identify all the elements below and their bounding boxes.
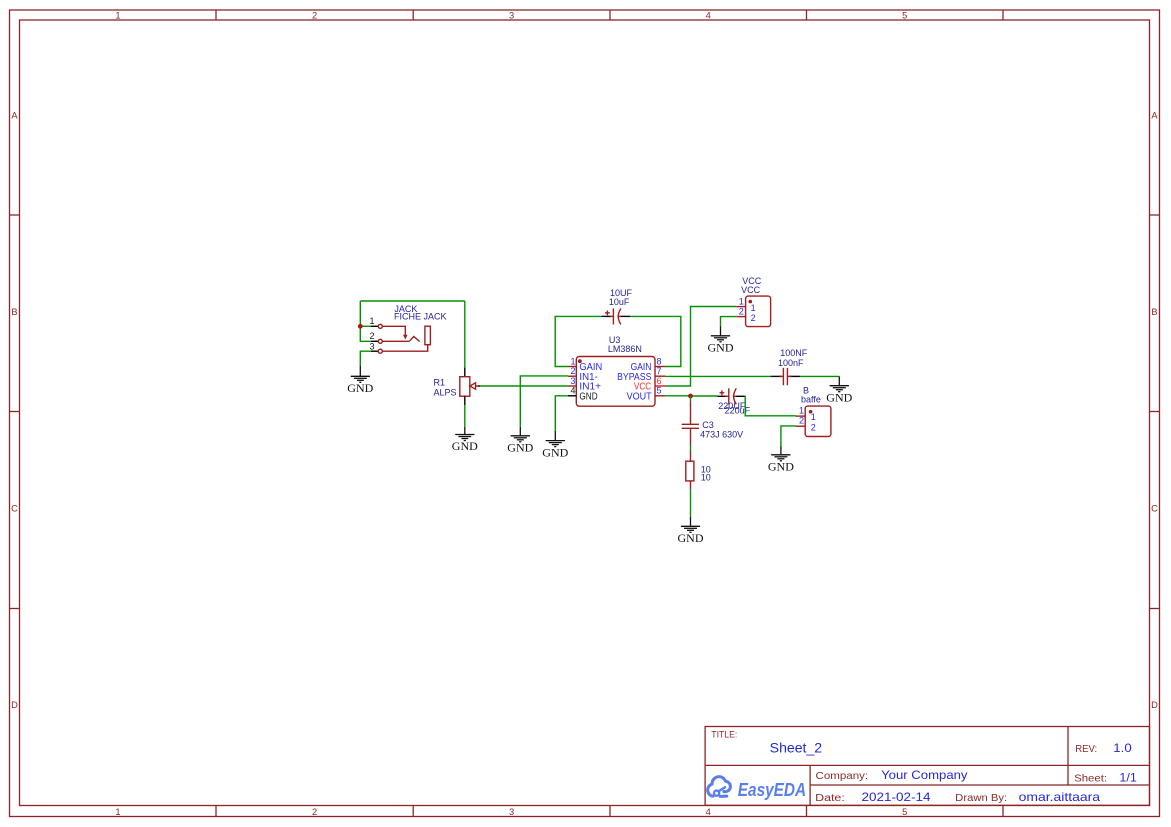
svg-text:GND: GND <box>507 441 533 455</box>
svg-text:1.0: 1.0 <box>1113 741 1132 755</box>
svg-text:1: 1 <box>751 303 756 313</box>
svg-text:ALPS: ALPS <box>434 387 457 397</box>
svg-text:3: 3 <box>509 807 514 817</box>
svg-text:100NF: 100NF <box>780 348 808 358</box>
svg-text:2: 2 <box>369 331 374 341</box>
ground GND output <box>678 517 704 545</box>
op-amp U3 LM386N <box>568 357 666 407</box>
wire junction to jack pin 1 <box>360 325 371 327</box>
svg-text:5: 5 <box>902 807 907 817</box>
svg-text:C: C <box>11 503 18 513</box>
connector JACK FICHE JACK <box>371 324 431 353</box>
svg-text:REV:: REV: <box>1075 744 1097 755</box>
svg-text:D: D <box>1151 700 1158 710</box>
svg-text:Sheet:: Sheet: <box>1074 773 1107 784</box>
svg-text:VOUT: VOUT <box>627 392 652 403</box>
svg-text:GND: GND <box>347 381 373 395</box>
title block <box>705 727 1149 806</box>
svg-text:R1: R1 <box>434 378 446 388</box>
wire VCC net vertical to pin 6 <box>665 307 736 387</box>
ground GND jack <box>347 366 373 395</box>
capacitor 10uF polarized <box>602 308 631 324</box>
wire 10uF right loop to pin 8 <box>630 316 681 366</box>
schematic <box>347 276 852 545</box>
wire jack pin 3 to ground <box>360 351 371 365</box>
svg-text:10uF: 10uF <box>609 297 630 307</box>
wire junction down to jack pin 2 <box>360 326 371 341</box>
ground GND R1 <box>452 427 478 453</box>
svg-text:2: 2 <box>312 807 317 817</box>
wire 10uF left loop <box>555 316 601 366</box>
svg-text:baffe: baffe <box>801 394 821 404</box>
ground GND baffe <box>768 446 794 473</box>
wire top vertical to R1 <box>464 301 466 368</box>
ground GND pin4 <box>542 431 568 459</box>
svg-text:4: 4 <box>570 386 575 396</box>
svg-text:100nF: 100nF <box>778 358 804 368</box>
capacitor 100nF <box>771 368 801 385</box>
resistor 10 <box>686 451 694 490</box>
capacitor 220uF polarized <box>717 388 744 404</box>
svg-text:1: 1 <box>570 356 575 366</box>
svg-text:2: 2 <box>811 422 816 432</box>
svg-text:220uF: 220uF <box>725 406 751 416</box>
svg-text:5: 5 <box>902 11 907 21</box>
svg-text:GND: GND <box>542 445 568 459</box>
wire VCC pin2 to ground <box>721 317 737 327</box>
svg-text:1: 1 <box>739 296 744 306</box>
svg-text:GND: GND <box>452 439 478 453</box>
svg-text:2: 2 <box>799 416 804 426</box>
svg-text:C: C <box>1151 503 1158 513</box>
svg-text:GND: GND <box>678 531 704 545</box>
svg-text:Your Company: Your Company <box>881 768 967 782</box>
potentiometer R1 <box>460 368 480 406</box>
svg-text:GND: GND <box>768 460 794 474</box>
wire B pin2 to ground <box>781 426 796 446</box>
wire pin7 bypass to 100nF <box>665 375 771 377</box>
svg-text:2021-02-14: 2021-02-14 <box>862 790 931 804</box>
svg-text:7: 7 <box>657 366 662 376</box>
svg-text:8: 8 <box>657 356 662 366</box>
svg-text:GND: GND <box>579 392 597 403</box>
connector B baffe <box>796 406 831 436</box>
svg-text:5: 5 <box>657 386 662 396</box>
svg-text:1: 1 <box>115 807 120 817</box>
svg-text:TITLE:: TITLE: <box>711 729 737 739</box>
svg-text:B: B <box>1151 307 1157 317</box>
svg-text:1: 1 <box>115 11 120 21</box>
svg-text:3: 3 <box>570 376 575 386</box>
wire input left vertical to junction <box>359 301 361 326</box>
svg-text:6: 6 <box>657 376 662 386</box>
svg-text:2: 2 <box>312 11 317 21</box>
svg-text:D: D <box>11 700 18 710</box>
svg-text:EasyEDA: EasyEDA <box>738 779 806 800</box>
wire input top horizontal <box>360 300 465 302</box>
svg-text:Date:: Date: <box>815 793 845 804</box>
wire U3 pin2 to ground <box>520 376 568 427</box>
wire U3 pin3 to R1 wiper <box>480 385 568 387</box>
svg-text:A: A <box>1151 110 1158 120</box>
svg-text:LM386N: LM386N <box>608 344 642 354</box>
wire R1 bottom to ground <box>464 405 466 427</box>
connector VCC <box>736 296 770 327</box>
svg-text:VCC: VCC <box>741 285 761 295</box>
ground GND middle <box>507 427 533 455</box>
capacitor C3 <box>682 402 699 446</box>
svg-text:Sheet_2: Sheet_2 <box>770 740 822 755</box>
svg-text:GND: GND <box>826 390 852 404</box>
svg-text:FICHE JACK: FICHE JACK <box>394 311 447 321</box>
svg-text:3: 3 <box>369 341 374 351</box>
svg-text:1: 1 <box>811 412 816 422</box>
svg-text:2: 2 <box>751 313 756 323</box>
wire 220uF to connector B pin1 <box>745 396 796 416</box>
svg-text:4: 4 <box>706 807 711 817</box>
ground GND bypass <box>826 376 852 404</box>
svg-text:2: 2 <box>739 307 744 317</box>
wire 100nF right to ground <box>800 375 839 377</box>
svg-text:3: 3 <box>509 11 514 21</box>
svg-text:B: B <box>11 307 17 317</box>
wire junction to 220uF <box>691 395 718 397</box>
svg-text:1/1: 1/1 <box>1119 770 1137 784</box>
svg-text:473J 630V: 473J 630V <box>700 429 743 439</box>
wire C3 to resistor 10 <box>690 445 692 451</box>
svg-text:Drawn By:: Drawn By: <box>955 793 1007 804</box>
svg-text:GND: GND <box>708 341 734 355</box>
svg-text:A: A <box>11 110 18 120</box>
capacitor C3 lead wire <box>690 396 692 402</box>
junction dot input node <box>358 324 363 329</box>
EasyEDA logo <box>708 777 731 797</box>
svg-text:Company:: Company: <box>816 771 869 782</box>
wire resistor to ground <box>690 490 692 517</box>
svg-text:4: 4 <box>706 11 711 21</box>
svg-text:1: 1 <box>369 316 374 326</box>
svg-text:10: 10 <box>701 472 711 482</box>
svg-text:omar.aittaara: omar.aittaara <box>1019 790 1101 804</box>
wire U3 pin5 VOUT to junction <box>665 395 690 397</box>
svg-text:2: 2 <box>570 366 575 376</box>
wire U3 pin4 to ground <box>555 396 568 431</box>
svg-text:1: 1 <box>799 406 804 416</box>
junction dot VOUT node <box>688 394 693 399</box>
ground GND vcc <box>708 326 734 354</box>
